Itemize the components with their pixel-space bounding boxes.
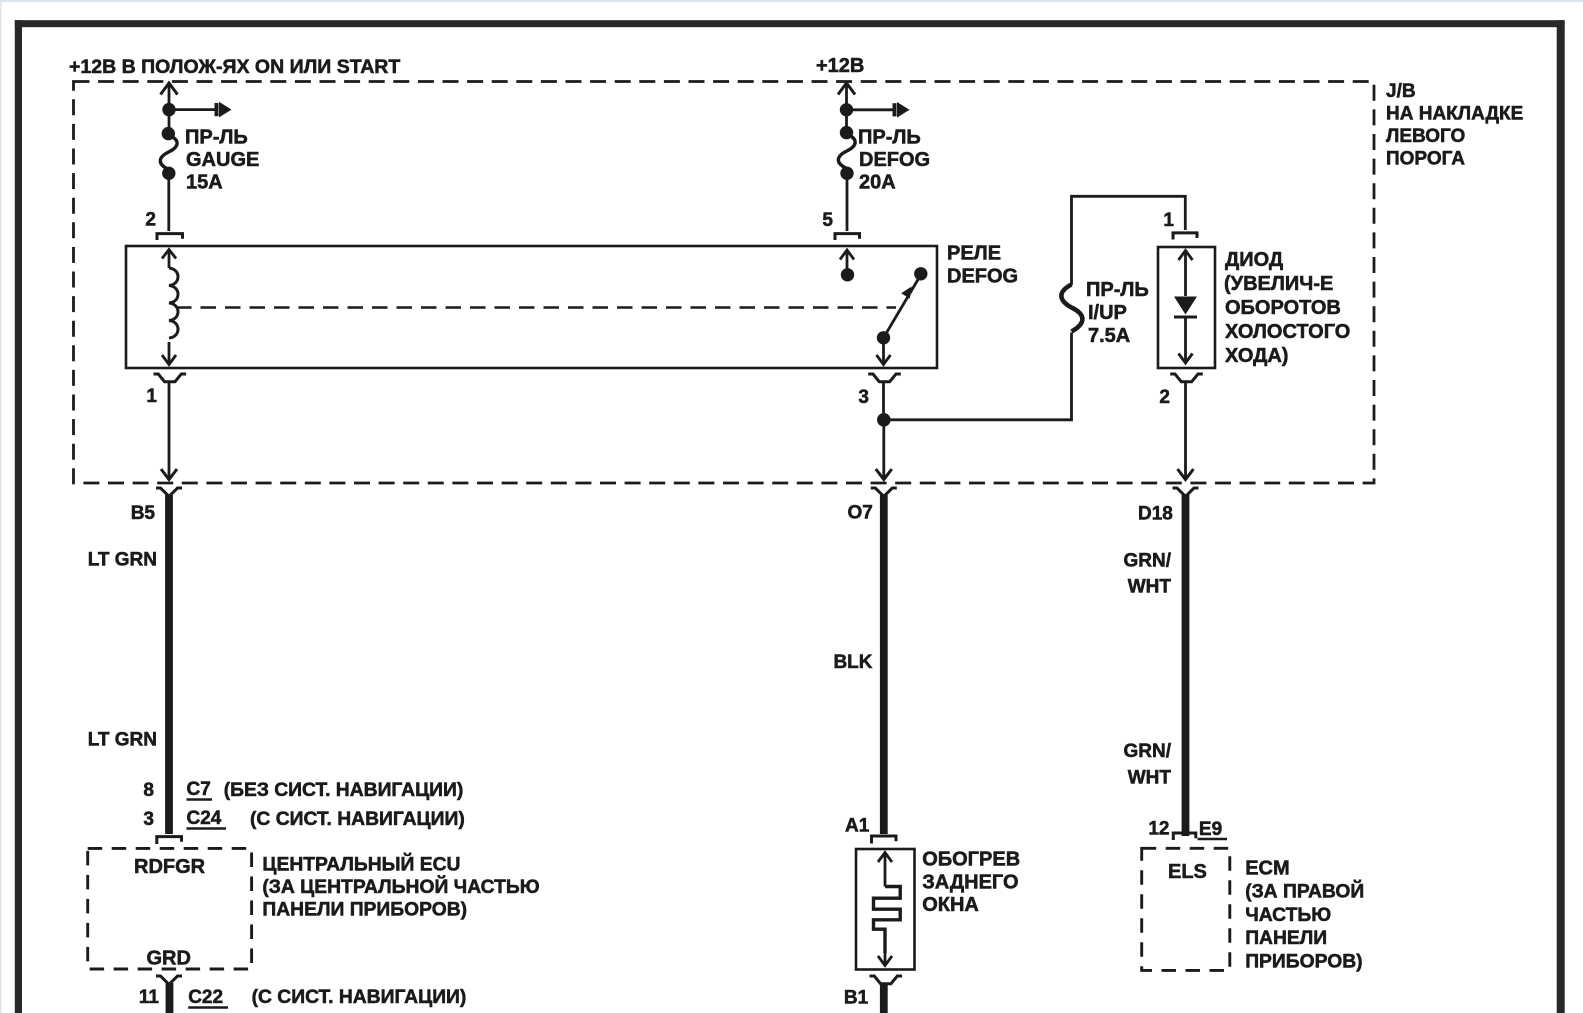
- arrow up at J/B top border, middle: [838, 83, 855, 95]
- fuse GAUGE 15A: [162, 127, 175, 140]
- svg-text:LT GRN: LT GRN: [88, 730, 157, 751]
- svg-text:C24: C24: [187, 808, 222, 829]
- svg-text:WHT: WHT: [1128, 577, 1172, 598]
- svg-text:1: 1: [1163, 210, 1174, 231]
- svg-text:5: 5: [822, 210, 833, 231]
- svg-text:ПР-ЛЬ: ПР-ЛЬ: [1086, 279, 1149, 301]
- connector O7 at J/B exit: [871, 488, 897, 496]
- relay coil: [162, 250, 176, 259]
- connector terminal below relay pin 3: [868, 374, 901, 382]
- svg-text:LT GRN: LT GRN: [88, 550, 157, 571]
- arrow down at J/B bottom border, left: [161, 469, 177, 480]
- svg-text:20A: 20A: [859, 172, 896, 194]
- wire: junction down to J/B border, middle: [882, 426, 885, 478]
- svg-text:DEFOG: DEFOG: [859, 149, 930, 171]
- page edge tint top: [0, 0, 1583, 2]
- svg-text:ОБОГРЕВ: ОБОГРЕВ: [922, 849, 1020, 871]
- connector terminal at defogger pin A1: [872, 836, 897, 844]
- relay internal dashed link coil to switch: [176, 306, 896, 309]
- page edge tint left: [0, 2, 2, 1013]
- svg-text:ЛЕВОГО: ЛЕВОГО: [1386, 126, 1465, 147]
- svg-text:2: 2: [1159, 387, 1170, 408]
- svg-text:3: 3: [858, 387, 869, 408]
- svg-text:ECM: ECM: [1245, 858, 1289, 880]
- wire: relay pin 1 down to J/B border: [168, 383, 171, 478]
- node: junction pin3 / diode branch: [877, 413, 891, 427]
- svg-text:ПАНЕЛИ ПРИБОРОВ): ПАНЕЛИ ПРИБОРОВ): [262, 900, 467, 921]
- junction box J/B dashed boundary: [74, 82, 1375, 484]
- connector terminal at diode pin 1: [1173, 233, 1197, 240]
- svg-text:A1: A1: [845, 816, 870, 837]
- wire LT GRN (thick), B5 to ECU: [165, 495, 173, 834]
- wire: +12V feed into J/B, left column: [168, 84, 171, 104]
- connector terminal below diode pin 2: [1170, 374, 1203, 382]
- central ECU dashed box: [88, 848, 252, 969]
- svg-text:GAUGE: GAUGE: [186, 149, 259, 171]
- svg-text:ХОДА): ХОДА): [1225, 345, 1288, 367]
- svg-text:C22: C22: [188, 987, 223, 1008]
- fuse DEFOG 20A: [840, 126, 853, 139]
- arrow up at J/B top border, left: [161, 83, 178, 95]
- wire: branch to other circuits, left: [175, 108, 217, 111]
- svg-text:I/UP: I/UP: [1088, 302, 1127, 324]
- arrow right (branch continues), middle: [893, 103, 897, 116]
- connector terminal at relay pin 5: [835, 234, 860, 240]
- connector terminal below relay pin 1: [154, 374, 187, 382]
- svg-text:ДИОД: ДИОД: [1225, 249, 1283, 271]
- svg-text:11: 11: [139, 987, 160, 1008]
- arrow down at J/B bottom border, right: [1178, 469, 1194, 480]
- svg-text:ЗАДНЕГО: ЗАДНЕГО: [922, 872, 1018, 894]
- svg-text:+12В: +12В: [816, 55, 864, 77]
- svg-text:+12В В ПОЛОЖ-ЯХ ON ИЛИ START: +12В В ПОЛОЖ-ЯХ ON ИЛИ START: [69, 56, 400, 78]
- svg-text:(БЕЗ СИСТ. НАВИГАЦИИ): (БЕЗ СИСТ. НАВИГАЦИИ): [224, 780, 464, 801]
- svg-text:RDFGR: RDFGR: [134, 856, 206, 878]
- svg-text:O7: O7: [848, 503, 873, 524]
- svg-text:3: 3: [143, 809, 154, 830]
- rear window defogger box: [856, 849, 915, 970]
- border frame top bar: [15, 20, 1565, 27]
- wire: fuse to relay pin 5: [846, 179, 849, 231]
- wire: fuse to relay pin 2: [167, 179, 170, 231]
- wire GRN/WHT (thick), D18 to ECM: [1182, 495, 1190, 836]
- svg-text:НА НАКЛАДКЕ: НА НАКЛАДКЕ: [1386, 104, 1523, 125]
- svg-text:B5: B5: [131, 503, 156, 524]
- svg-text:(ЗА ЦЕНТРАЛЬНОЙ ЧАСТЬЮ: (ЗА ЦЕНТРАЛЬНОЙ ЧАСТЬЮ: [262, 874, 539, 898]
- svg-text:J/B: J/B: [1386, 81, 1416, 102]
- svg-text:B1: B1: [844, 988, 869, 1009]
- connector below ECU GRD pin: [156, 976, 182, 984]
- svg-text:1: 1: [146, 386, 157, 407]
- svg-text:8: 8: [143, 780, 154, 801]
- svg-text:(С СИСТ. НАВИГАЦИИ): (С СИСТ. НАВИГАЦИИ): [250, 809, 465, 830]
- fuse I/UP 7.5A: [1061, 285, 1082, 332]
- node: junction dot middle feed: [840, 103, 853, 116]
- connector terminal at ECU RDFGR pin: [157, 837, 182, 844]
- svg-text:BLK: BLK: [833, 652, 872, 673]
- svg-text:(С СИСТ. НАВИГАЦИИ): (С СИСТ. НАВИГАЦИИ): [252, 987, 467, 1008]
- connector below defogger pin B1: [870, 976, 903, 984]
- svg-text:15A: 15A: [186, 172, 223, 194]
- svg-text:GRN/: GRN/: [1124, 741, 1172, 762]
- wire: branch to other circuits, middle: [853, 108, 893, 111]
- svg-text:ЦЕНТРАЛЬНЫЙ ECU: ЦЕНТРАЛЬНЫЙ ECU: [262, 852, 460, 876]
- svg-text:ОБОРОТОВ: ОБОРОТОВ: [1225, 297, 1341, 319]
- svg-text:2: 2: [145, 210, 156, 231]
- svg-text:GRD: GRD: [147, 948, 191, 970]
- arrow right (branch continues), left: [215, 103, 219, 116]
- svg-text:7.5A: 7.5A: [1088, 325, 1130, 347]
- svg-text:GRN/: GRN/: [1124, 551, 1172, 572]
- svg-text:(ЗА ПРАВОЙ: (ЗА ПРАВОЙ: [1245, 879, 1364, 903]
- wire: dot to fuse DEFOG: [845, 116, 848, 127]
- connector terminal at ECM pin 12: [1173, 833, 1196, 840]
- border frame right bar: [1557, 20, 1565, 1013]
- node: relay switch fixed contact: [914, 267, 927, 280]
- wire ground lead below C22: [166, 983, 174, 1013]
- node: junction dot left feed: [162, 103, 175, 116]
- wire: dot to fuse: [168, 116, 171, 129]
- svg-text:ПОРОГА: ПОРОГА: [1386, 149, 1465, 170]
- svg-text:DEFOG: DEFOG: [947, 266, 1018, 288]
- arrow down at J/B bottom border, middle: [876, 469, 892, 480]
- svg-text:ПАНЕЛИ: ПАНЕЛИ: [1245, 928, 1327, 949]
- svg-text:12: 12: [1148, 819, 1169, 840]
- connector D18 at J/B exit: [1173, 488, 1199, 496]
- wire: middle feed +12V: [845, 84, 848, 104]
- relay pin 3 internal lead: [882, 344, 885, 363]
- wire: relay pin 3 to junction: [882, 383, 885, 413]
- node: relay switch pivot: [877, 331, 890, 344]
- connector terminal at relay pin 2: [157, 234, 183, 240]
- wire: fuse I/UP up and over to diode pin 1: [1072, 196, 1186, 285]
- svg-text:D18: D18: [1138, 504, 1173, 525]
- defogger heater element: [884, 853, 887, 887]
- wire: junction to fuse I/UP branch: [890, 333, 1072, 420]
- diode box: [1158, 247, 1215, 368]
- diode symbol D1: [1184, 252, 1187, 296]
- svg-text:ХОЛОСТОГО: ХОЛОСТОГО: [1225, 321, 1350, 343]
- relay pin 5 internal lead: [846, 250, 849, 269]
- svg-text:ПРИБОРОВ): ПРИБОРОВ): [1245, 951, 1362, 972]
- svg-text:WHT: WHT: [1128, 768, 1172, 789]
- svg-text:РЕЛЕ: РЕЛЕ: [947, 243, 1001, 265]
- relay switch movable contact: [884, 277, 920, 338]
- wire ground lead below B1: [880, 984, 888, 1013]
- wire BLK (thick), O7 to defogger A1: [880, 495, 888, 834]
- svg-text:ОКНА: ОКНА: [922, 894, 979, 916]
- relay DEFOG box: [126, 246, 937, 368]
- svg-text:E9: E9: [1199, 819, 1222, 840]
- connector B5 at J/B exit: [156, 488, 182, 496]
- border frame left bar: [15, 20, 22, 1013]
- svg-text:(УВЕЛИЧ-Е: (УВЕЛИЧ-Е: [1224, 273, 1333, 295]
- svg-text:ELS: ELS: [1168, 861, 1207, 883]
- svg-text:ЧАСТЬЮ: ЧАСТЬЮ: [1245, 905, 1331, 926]
- node: relay switch input contact: [841, 268, 854, 281]
- svg-text:ПР-ЛЬ: ПР-ЛЬ: [185, 127, 248, 149]
- ECM dashed box: [1142, 848, 1230, 970]
- svg-text:C7: C7: [187, 779, 211, 800]
- svg-text:ПР-ЛЬ: ПР-ЛЬ: [858, 127, 921, 149]
- wire: diode pin 2 down to J/B border: [1184, 383, 1187, 478]
